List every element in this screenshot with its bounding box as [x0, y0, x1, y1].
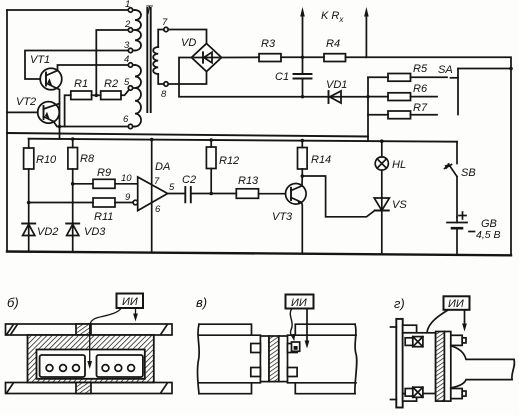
node R11 junction — [27, 201, 31, 205]
wire R6 left — [368, 96, 388, 98]
wire R1 left down to emitter line — [65, 95, 71, 126]
svg-text:R14: R14 — [311, 154, 331, 166]
node VD1 junction — [366, 95, 369, 98]
arrow to Rx left — [302, 13, 304, 57]
resistor R12 — [206, 147, 216, 169]
resistor R9 — [93, 179, 115, 188]
svg-text:8: 8 — [161, 89, 167, 100]
svg-text:7: 7 — [162, 17, 168, 28]
wire R5 left — [368, 76, 388, 78]
diode VD2 — [22, 223, 35, 225]
resistor R10 — [24, 148, 34, 169]
wire SB column — [456, 142, 458, 164]
drawing b: top plate — [6, 324, 173, 335]
svg-text:VT1: VT1 — [30, 54, 50, 66]
rectifier bridge VD — [192, 44, 222, 72]
drawing b: bottom plate break marks — [7, 384, 13, 393]
drawing b: box1 holes — [46, 365, 53, 372]
svg-text:9: 9 — [125, 192, 131, 203]
svg-text:C2: C2 — [182, 174, 196, 186]
svg-text:6: 6 — [155, 204, 161, 215]
wire R5R6R7 vertical — [367, 77, 369, 141]
arrow to Rx right — [365, 13, 367, 57]
battery minus sign — [469, 231, 475, 233]
svg-text:R10: R10 — [36, 154, 57, 166]
wire pin 7 up — [151, 140, 153, 253]
wire R11 left — [29, 202, 93, 204]
node terminal 5 — [128, 86, 132, 90]
wire terminal 8 to bridge bottom — [168, 72, 206, 85]
wire VT3 emitter down — [301, 202, 304, 253]
wire bottom bus — [7, 252, 511, 256]
drawing g: leader straight — [464, 310, 466, 327]
drawing g: leader curvy — [427, 310, 448, 340]
svg-text:R1: R1 — [74, 78, 88, 90]
resistor R4 — [324, 54, 346, 62]
drawing b: flange body hatched — [28, 335, 154, 383]
node C1 bottom junction — [301, 95, 304, 98]
wire VT2 base — [7, 111, 38, 113]
svg-text:2: 2 — [124, 19, 131, 30]
svg-text:10: 10 — [121, 173, 132, 184]
drawing v: II marker on lug — [292, 342, 300, 351]
wire top — [7, 9, 130, 11]
diode VD1 — [330, 91, 341, 103]
wire collector to VS gate — [302, 176, 375, 217]
drawing g: gasket hatched strip — [436, 332, 445, 402]
wire VT1 emitter down to rail B — [56, 88, 60, 139]
drawing v: II label box — [286, 295, 314, 309]
svg-text:VT3: VT3 — [272, 211, 293, 223]
node R14 top junction — [301, 139, 305, 143]
node terminal 2 — [128, 28, 132, 32]
resistor R6 — [388, 93, 411, 101]
drawing g: top bolt square — [405, 338, 413, 346]
svg-text:3: 3 — [124, 40, 130, 51]
resistor R13 — [236, 189, 258, 199]
svg-text:VD1: VD1 — [326, 79, 347, 91]
lamp HL — [375, 157, 388, 170]
wire SA to right edge — [458, 68, 511, 70]
wire R9 to pin 10 — [115, 183, 138, 185]
resistor R7 — [388, 111, 411, 119]
drawing v: leader straight — [306, 309, 308, 345]
drawing v: left flange plate — [260, 336, 269, 382]
drawing b: top plate right break marks — [161, 325, 167, 334]
drawing b: sensor box 2 — [97, 355, 143, 377]
resistor R14 — [298, 148, 308, 170]
svg-text:R13: R13 — [238, 175, 259, 187]
transformer T core — [146, 8, 148, 112]
wire terminal 7 to bridge top — [168, 30, 206, 44]
switch SB — [449, 164, 458, 177]
drawing b: bottom plate insert — [76, 383, 91, 394]
drawing v: left bolt lugs — [251, 344, 261, 353]
capacitor C1 — [294, 73, 312, 75]
wire R6 right — [411, 96, 438, 98]
drawing b: leader to top plate — [135, 308, 137, 317]
svg-text:R4: R4 — [326, 38, 340, 50]
wire R9 left — [73, 183, 93, 185]
svg-text:R11: R11 — [94, 211, 113, 223]
svg-text:HL: HL — [392, 159, 406, 171]
resistor R1 — [71, 91, 92, 100]
svg-text:7: 7 — [154, 176, 160, 187]
wire R1 to R2 — [92, 94, 101, 96]
drawing b: top plate left break marks — [7, 325, 13, 334]
node collector junction — [301, 174, 305, 178]
svg-text:R6: R6 — [413, 83, 428, 95]
node right edge junction — [509, 67, 513, 71]
node R12 bottom junction — [209, 192, 213, 196]
resistor R5 — [388, 74, 411, 82]
drawing g: right plate — [444, 332, 450, 402]
wire output pin 5 — [168, 193, 185, 195]
drawing g: pipe — [451, 346, 514, 360]
drawing v: left pipe body — [199, 324, 252, 335]
svg-text:VD: VD — [181, 37, 196, 49]
svg-text:R7: R7 — [413, 102, 428, 114]
svg-text:г): г) — [394, 296, 405, 311]
drawing g: bottom bolt square — [405, 389, 413, 397]
svg-text:VS: VS — [392, 199, 407, 211]
drawing g: II label box — [444, 296, 470, 310]
drawing g: top right bolt — [451, 335, 462, 345]
node R9 junction — [71, 182, 75, 186]
drawing g: top step — [403, 325, 417, 333]
wire rail A — [7, 133, 368, 137]
wire VT2 emitter to terminal 6 — [54, 122, 129, 127]
wire R11 to pin 9 bubble — [115, 202, 133, 204]
label terminal numbers — [123, 0, 168, 125]
svg-text:DA: DA — [155, 161, 170, 173]
node terminal 6 — [128, 124, 132, 128]
wire left vertical bus — [6, 10, 8, 252]
drawing g: flange disk plate — [396, 319, 402, 408]
resistor R11 — [93, 198, 115, 207]
wire rail B — [29, 139, 457, 142]
node terminal 3 — [128, 48, 132, 52]
wire VT1 collector to terminal 4 — [58, 65, 129, 71]
svg-text:R9: R9 — [97, 167, 111, 179]
svg-text:R3: R3 — [261, 38, 276, 50]
wire bridge plus output to R3 — [222, 56, 260, 58]
drawing g: bottom step — [403, 394, 417, 402]
transformer T secondary winding — [153, 47, 158, 74]
svg-text:SA: SA — [438, 64, 453, 76]
resistor R8 — [68, 148, 78, 170]
svg-text:C1: C1 — [275, 71, 289, 83]
svg-text:R8: R8 — [80, 153, 95, 165]
node R1R2 junction — [95, 94, 99, 98]
drawing b: top plate insulating insert — [76, 324, 91, 335]
wire R5 right to SA — [411, 76, 448, 78]
transistor VT3 — [286, 184, 307, 205]
battery GB — [447, 222, 467, 224]
drawing v: gasket hatched — [269, 336, 279, 382]
diode VD3 — [66, 223, 79, 225]
svg-text:5: 5 — [124, 77, 130, 88]
node junction arrows — [301, 56, 304, 59]
wire winding taps — [133, 9, 135, 11]
drawing v: leader curvy — [290, 309, 293, 338]
node terminal 4 — [128, 63, 132, 67]
transistor VT2 — [38, 102, 60, 124]
wire R2 to terminal 5 — [121, 90, 129, 96]
drawing v: left pipe bore lines — [199, 334, 260, 336]
transformer T primary winding arcs — [135, 10, 141, 51]
svg-text:ИИ: ИИ — [291, 297, 307, 309]
wire R4 to right edge — [346, 57, 512, 255]
drawing v: right pipe body — [288, 334, 357, 336]
svg-text:VT2: VT2 — [16, 96, 36, 108]
svg-text:1: 1 — [125, 0, 130, 10]
wire terminal2 to R1R2 junction — [96, 30, 128, 95]
wire VT3 collector to R14 — [301, 169, 303, 186]
drawing b: sensor box 1 — [40, 355, 85, 377]
svg-text:R12: R12 — [219, 155, 239, 167]
svg-text:R2: R2 — [104, 78, 118, 90]
svg-text:4: 4 — [124, 54, 129, 65]
svg-text:5: 5 — [169, 182, 175, 193]
wire terminal7 winding — [158, 30, 164, 48]
wire terminal3 to VT1 base — [25, 51, 128, 80]
node HL top junction — [380, 139, 384, 143]
transistor VT1 — [40, 68, 62, 90]
svg-text:в): в) — [196, 295, 207, 310]
node pin7 junction — [150, 138, 154, 142]
resistor R2 — [101, 91, 121, 100]
drawing b: II label box — [117, 294, 144, 309]
svg-text:ИИ: ИИ — [122, 296, 138, 308]
resistor R3 — [259, 54, 281, 62]
svg-text:R5: R5 — [413, 63, 428, 75]
drawing v: right bolt lugs — [288, 344, 298, 353]
svg-text:VD3: VD3 — [84, 226, 106, 238]
node junction emitter line — [58, 125, 62, 129]
node terminal 1 — [128, 8, 132, 12]
wire terminal8 winding — [158, 74, 164, 84]
svg-text:4,5 В: 4,5 В — [476, 229, 501, 241]
drawing v: right flange plate — [279, 336, 288, 382]
wire R13 to VT3 base — [259, 193, 286, 195]
svg-text:VD2: VD2 — [37, 226, 58, 238]
drawing g: flange body — [403, 333, 436, 394]
battery plus sign — [459, 215, 466, 217]
wire bridge minus output — [179, 58, 368, 97]
wire R7 left — [368, 114, 388, 116]
capacitor C2 — [184, 187, 186, 202]
wire C2 to R13 — [191, 193, 237, 195]
drawing g: bottom right bolt — [451, 389, 462, 399]
svg-text:SB: SB — [461, 167, 476, 179]
wire R3 to R4 — [281, 56, 324, 58]
switch SA bar — [457, 69, 459, 115]
drawing b: box2 holes — [102, 365, 109, 372]
wire R7 right — [411, 114, 438, 116]
thyristor VS — [374, 198, 389, 211]
op-amp DA — [138, 177, 168, 211]
node R8 rail junction — [71, 137, 75, 141]
svg-text:6: 6 — [123, 114, 129, 125]
svg-text:б): б) — [7, 295, 19, 310]
switch SA contact tick — [451, 77, 459, 79]
node terminal 7 — [164, 27, 168, 31]
drawing b: leader to center — [90, 308, 122, 326]
node R12 top junction — [209, 138, 213, 142]
node terminal 8 — [164, 82, 168, 86]
drawing b: bottom plate — [6, 383, 173, 394]
svg-text:ИИ: ИИ — [448, 298, 464, 310]
